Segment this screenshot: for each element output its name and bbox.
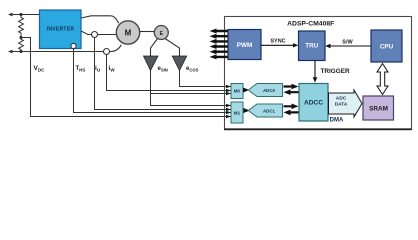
svg-text:THS: THS: [76, 66, 86, 73]
svg-text:S/W: S/W: [342, 40, 353, 46]
svg-text:M1: M1: [234, 110, 241, 115]
current sensor iW: [104, 49, 110, 55]
svg-text:SRAM: SRAM: [369, 106, 388, 113]
TRU block: [299, 31, 326, 61]
wire: phase W arc to motor: [110, 45, 122, 52]
S/W arrow CPU to TRU: [330, 45, 371, 47]
wire: eSIN branch to M0: [151, 93, 232, 95]
svg-text:ADC1: ADC1: [263, 108, 276, 113]
svg-text:ADC: ADC: [336, 96, 347, 102]
PWM output arrows: [210, 29, 228, 60]
TRIGGER line TRU to ADCC: [314, 61, 316, 79]
wire: E to sin buffer: [151, 39, 158, 57]
node: junction dot mid: [20, 36, 23, 39]
wire: iW drop and route to M0: [107, 55, 232, 91]
node: junction dot top: [20, 13, 23, 16]
ADC1 horn: [248, 104, 282, 117]
current sensor iU: [92, 32, 98, 38]
svg-text:TRIGGER: TRIGGER: [321, 68, 350, 75]
svg-text:SYNC: SYNC: [270, 39, 285, 45]
svg-text:CPU: CPU: [380, 44, 394, 51]
buffer amp eCOS: [172, 56, 187, 71]
svg-text:DATA: DATA: [335, 102, 348, 108]
svg-text:eSIN: eSIN: [158, 66, 168, 72]
inverter block: [40, 10, 82, 49]
svg-text:ADC0: ADC0: [263, 88, 276, 93]
svg-text:ADSP-CM408F: ADSP-CM408F: [287, 21, 334, 28]
resistor R1 (upper divider): [19, 15, 24, 36]
arrowheads into M1: [226, 104, 231, 107]
resistor R2 (lower divider): [19, 38, 24, 52]
arrows ADC1-ADCC: [284, 104, 299, 110]
svg-text:INVERTER: INVERTER: [47, 27, 75, 33]
buffer amp eSIN: [144, 56, 159, 71]
arrow M0 to ADC0: [243, 88, 248, 92]
SRAM block: [363, 96, 394, 120]
ADSP-CM408F outer box: [225, 17, 412, 130]
arrowheads into M0: [226, 85, 231, 88]
wire: bottom DC rail: [9, 51, 104, 53]
CPU block: [371, 30, 402, 62]
ADCC block: [299, 84, 328, 122]
svg-text:DMA: DMA: [330, 118, 344, 124]
wire: VDC tap and route to M1: [21, 38, 231, 117]
PWM block: [228, 30, 261, 60]
node: top rail arrow tip: [8, 13, 13, 17]
wire: iU drop and route to M1: [95, 38, 232, 110]
svg-text:M0: M0: [234, 89, 241, 94]
svg-text:TRU: TRU: [305, 43, 318, 50]
wire: top DC rail: [9, 14, 39, 16]
wire: shaft M to E: [140, 31, 155, 33]
node: junction dot bottom: [20, 50, 23, 53]
wire: E to cos buffer: [165, 39, 180, 57]
motor M: [116, 21, 139, 44]
arrow M1 to ADC1: [244, 109, 249, 113]
encoder E: [154, 26, 168, 40]
CPU-SRAM double arrow: [377, 64, 388, 95]
arrows ADC0-ADCC: [284, 84, 299, 90]
wire: phase U to motor: [81, 16, 119, 23]
wire: THS drop and route to M1: [74, 49, 232, 113]
wire: phase V to motor: [81, 31, 92, 35]
ADC DATA DMA block arrow: [329, 90, 363, 117]
temp sensor THS on inverter: [71, 43, 76, 48]
wire: eCOS drop and route to M0: [180, 71, 232, 87]
svg-text:M: M: [125, 29, 132, 38]
ADC0 horn: [248, 84, 282, 97]
wire: eSIN drop and route to M1: [151, 71, 232, 106]
svg-text:PWM: PWM: [237, 42, 252, 49]
M0 mux box: [231, 84, 243, 99]
M1 mux box: [231, 102, 243, 123]
svg-text:ADCC: ADCC: [304, 100, 323, 107]
svg-text:eCOS: eCOS: [186, 66, 199, 72]
node: bottom rail arrow tip: [8, 50, 13, 54]
SYNC arrow PWM to TRU: [261, 44, 294, 46]
